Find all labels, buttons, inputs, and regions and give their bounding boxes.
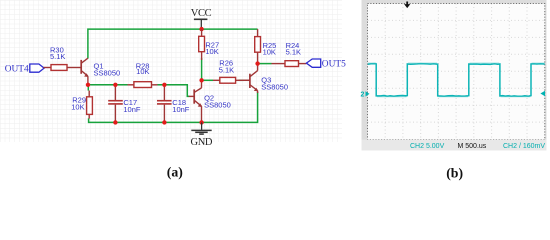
svg-text:10nF: 10nF — [123, 105, 141, 114]
ground GND — [191, 122, 213, 147]
svg-text:VCC: VCC — [191, 8, 212, 19]
svg-text:GND: GND — [191, 137, 213, 148]
wire: mid rail left (Q1 emitter to R28) — [88, 84, 128, 86]
junction: C17 bottom — [113, 120, 117, 124]
svg-text:OUT5: OUT5 — [322, 59, 346, 69]
transistor Q2 — [189, 81, 202, 123]
resistor R28 — [128, 82, 158, 88]
value label R27 10K — [205, 40, 219, 55]
channel 2 marker right arrow — [540, 91, 545, 96]
resistor R29 — [87, 91, 93, 119]
port OUT4 — [5, 64, 44, 75]
junction: Q3 collector node — [255, 61, 259, 65]
label Q2 SS8050 — [204, 93, 231, 109]
value label R29 10K — [71, 96, 86, 112]
svg-text:10K: 10K — [136, 67, 149, 76]
wire: R29 top stub — [87, 85, 89, 91]
wire: top VCC rail — [88, 29, 258, 58]
svg-text:5.1K: 5.1K — [50, 52, 65, 61]
waveform trace CH2 square wave — [368, 63, 545, 97]
wire: R26 to Q3 base — [239, 79, 244, 81]
resistor R24 — [272, 61, 307, 67]
value label R28 10K — [136, 61, 150, 76]
oscilloscope screenshot panel — [362, 0, 547, 150]
wire: node B to R26 — [202, 79, 213, 81]
value label R26 5.1K — [219, 59, 234, 75]
capacitor C18 — [157, 86, 172, 123]
wire: mid rail right (R28 to Q2 base corner) — [158, 85, 190, 97]
scope graticule frame — [368, 4, 545, 140]
capacitor C17 — [108, 86, 123, 123]
caption (b) — [446, 165, 463, 181]
svg-text:10K: 10K — [71, 102, 84, 111]
svg-text:5.1K: 5.1K — [286, 48, 301, 57]
wire: bottom ground rail — [89, 92, 258, 122]
value label C17 10nF — [123, 98, 141, 114]
junction: C18 bottom — [162, 120, 166, 124]
svg-text:5.1K: 5.1K — [219, 66, 234, 75]
schematic background grid — [0, 0, 342, 142]
label Q3 SS8050 — [261, 76, 288, 92]
value label C18 10nF — [172, 98, 190, 114]
junction: C17 top — [113, 83, 117, 87]
junction: Q1 emitter node — [86, 83, 90, 87]
svg-text:SS8050: SS8050 — [261, 83, 288, 92]
value label R24 5.1K — [286, 41, 301, 57]
svg-text:10nF: 10nF — [172, 105, 190, 114]
transistor Q1 — [81, 58, 88, 83]
scope graticule dotted grid — [368, 4, 545, 140]
svg-text:CH2 / 160mV: CH2 / 160mV — [503, 143, 545, 150]
wire: R27 bottom to Q2 collector node — [201, 58, 203, 80]
port OUT5 — [306, 59, 346, 69]
value label R30 5.1K — [50, 45, 65, 61]
resistor R26 — [213, 77, 249, 83]
resistor R30 — [43, 65, 80, 71]
value label R25 10K — [263, 41, 277, 56]
resistor R25 — [255, 29, 261, 64]
junction: VCC rail node — [199, 27, 203, 31]
svg-text:10K: 10K — [263, 47, 276, 56]
channel 2 reference marker left — [361, 91, 370, 98]
svg-text:SS8050: SS8050 — [94, 69, 121, 78]
wire: node C to R24 — [259, 63, 272, 65]
svg-text:10K: 10K — [205, 47, 218, 56]
trigger position marker — [404, 2, 410, 9]
transistor Q3 — [244, 64, 259, 93]
junction: C18 top — [162, 83, 166, 87]
svg-text:M 500.us: M 500.us — [458, 143, 487, 150]
svg-text:SS8050: SS8050 — [204, 100, 231, 109]
junction: GND node — [199, 120, 203, 124]
svg-text:2: 2 — [361, 92, 365, 99]
label Q1 SS8050 — [94, 62, 121, 78]
svg-text:(b): (b) — [446, 165, 463, 181]
svg-text:OUT4: OUT4 — [5, 65, 29, 75]
power port VCC — [191, 8, 212, 29]
svg-text:CH2 5.00V: CH2 5.00V — [410, 143, 445, 150]
caption (a) — [167, 164, 183, 180]
resistor R27 — [199, 29, 205, 60]
svg-text:(a): (a) — [167, 164, 183, 180]
junction: Q2 collector node — [199, 78, 203, 82]
scope status bar — [362, 140, 547, 151]
